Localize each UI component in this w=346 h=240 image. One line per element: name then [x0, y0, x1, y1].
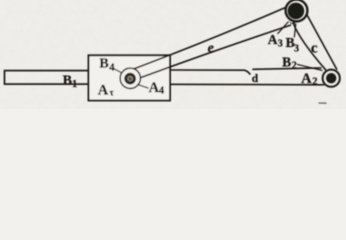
leader A4: [137, 84, 148, 88]
svg-text:4: 4: [159, 85, 165, 96]
pivot A2 B2 bottom right joint: [323, 70, 340, 87]
svg-text:B: B: [63, 73, 72, 88]
link c: [293, 15, 337, 71]
svg-text:A: A: [268, 32, 278, 47]
leader B2: [297, 64, 323, 70]
svg-text:4: 4: [109, 62, 115, 73]
svg-text:c: c: [311, 41, 318, 57]
paper grain: [0, 0, 346, 109]
svg-text:2: 2: [312, 76, 317, 87]
label A3: [268, 32, 283, 49]
pivot A3 B3 top joint: [286, 0, 308, 25]
link e: [134, 8, 292, 78]
leader B3: [294, 24, 296, 38]
link b bar B1: [5, 71, 89, 85]
svg-text:d: d: [252, 73, 259, 85]
label AT: [98, 83, 115, 99]
leader B4: [114, 69, 123, 74]
label B2: [282, 55, 297, 72]
label B1: [63, 73, 78, 90]
slider box AT: [89, 55, 171, 100]
svg-text:B: B: [282, 55, 291, 70]
label A2: [301, 71, 317, 88]
label B4: [99, 56, 115, 73]
label A4: [149, 80, 165, 97]
label e: [208, 41, 214, 56]
pivot A4 B4 eye in slider box: [120, 68, 140, 88]
link d bar: [170, 68, 324, 85]
svg-text:1: 1: [72, 79, 77, 90]
svg-text:3: 3: [278, 39, 283, 50]
label d: [252, 73, 259, 85]
stray mark under bottom pivot: [319, 102, 327, 104]
svg-text:3: 3: [294, 44, 299, 55]
svg-text:2: 2: [292, 60, 297, 71]
svg-text:e: e: [208, 41, 214, 56]
svg-text:B: B: [99, 56, 108, 71]
leader A3: [278, 22, 289, 34]
svg-text:A: A: [98, 83, 109, 99]
svg-text:A: A: [301, 71, 312, 87]
label c: [311, 41, 318, 57]
label B3: [286, 35, 299, 55]
